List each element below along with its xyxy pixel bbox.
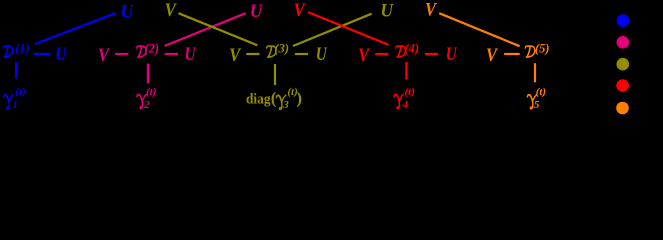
- wire red diagonal from top V to D4: [308, 12, 388, 45]
- legend dot orange: [616, 102, 629, 115]
- wire magenta diagonal to top U: [165, 13, 246, 46]
- svg-text:(3): (3): [274, 42, 289, 56]
- label gamma5: [527, 86, 546, 111]
- svg-text:(t): (t): [405, 86, 415, 98]
- wire olive diagonal from top V to D3: [179, 13, 258, 45]
- svg-text:(2): (2): [144, 42, 159, 56]
- wire V-D2 bond: [115, 53, 128, 55]
- wire D4-U bond: [425, 53, 438, 55]
- svg-text:U: U: [316, 44, 328, 65]
- svg-text:(t): (t): [146, 86, 156, 98]
- wire V-D5 bond: [504, 53, 520, 55]
- wire blue diagonal to top U: [35, 13, 116, 44]
- legend dot red: [616, 79, 629, 92]
- wire D3-U bond: [295, 53, 308, 55]
- svg-text:U: U: [185, 44, 197, 65]
- svg-text:V: V: [294, 0, 306, 21]
- svg-text:1: 1: [12, 99, 18, 111]
- svg-text:(1): (1): [15, 42, 30, 56]
- svg-text:V: V: [358, 45, 370, 66]
- label gamma4: [394, 86, 415, 111]
- label gamma1: [4, 86, 26, 111]
- wire D2-U bond: [165, 53, 178, 55]
- legend dot olive: [617, 58, 630, 71]
- svg-text:V: V: [229, 45, 241, 66]
- svg-text:(5): (5): [535, 42, 550, 56]
- svg-text:U: U: [120, 2, 134, 23]
- wire V-D3 bond: [246, 53, 259, 55]
- svg-text:V: V: [98, 45, 110, 66]
- wire D2 leg: [147, 64, 149, 84]
- svg-text:U: U: [446, 44, 458, 65]
- svg-text:(t): (t): [15, 86, 25, 98]
- svg-text:4: 4: [402, 99, 409, 111]
- wire olive diagonal from D3 to top U: [293, 14, 372, 46]
- label diag(gamma3): [246, 86, 302, 111]
- svg-text:V: V: [486, 45, 498, 66]
- svg-text:U: U: [55, 44, 67, 65]
- svg-text:3: 3: [282, 99, 289, 111]
- node D3: [267, 42, 289, 57]
- wire D3 leg: [274, 64, 276, 85]
- wire D1-U bond: [34, 53, 50, 55]
- wire orange diagonal from top V to D5: [439, 13, 520, 46]
- svg-text:V: V: [425, 0, 437, 21]
- svg-text:(t): (t): [536, 86, 546, 98]
- node D5: [525, 42, 549, 57]
- wire D4 leg: [405, 62, 407, 80]
- wire V-D4 bond: [375, 53, 388, 55]
- wire D1 leg: [15, 62, 17, 79]
- svg-text:diag: diag: [246, 92, 271, 108]
- wire D5 leg: [534, 63, 536, 82]
- node D2: [137, 42, 159, 57]
- legend dot blue: [617, 14, 630, 27]
- label gamma2: [137, 86, 156, 111]
- svg-text:U: U: [380, 0, 394, 21]
- svg-text:U: U: [250, 1, 264, 22]
- svg-text:V: V: [165, 0, 177, 21]
- node D1: [3, 42, 30, 57]
- svg-text:): ): [296, 88, 302, 107]
- svg-text:(4): (4): [404, 42, 419, 56]
- svg-text:5: 5: [534, 99, 540, 111]
- svg-text:2: 2: [143, 99, 150, 111]
- node D4: [396, 42, 419, 57]
- legend dot magenta: [617, 36, 630, 49]
